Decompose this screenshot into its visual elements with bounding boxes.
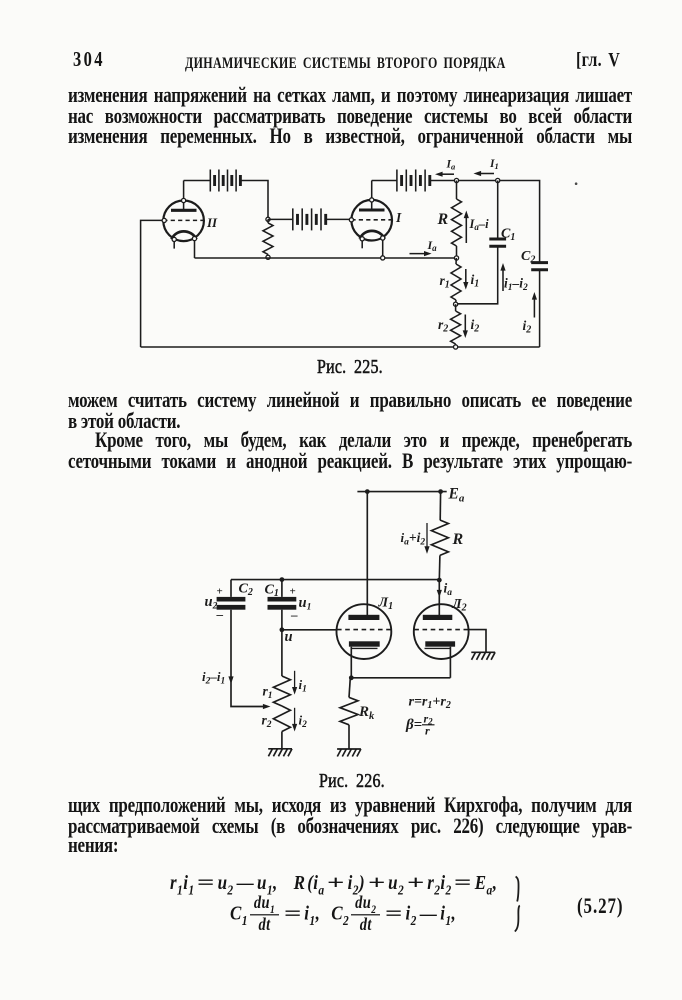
label ia (444, 581, 453, 599)
arrow i2 (fig226 downward) (292, 708, 297, 732)
svg-text:C1: C1 (501, 227, 515, 244)
wire: left outer branch (141, 220, 162, 347)
formula beta=r2/r (405, 712, 435, 738)
wire: grid L1 lead (282, 629, 337, 631)
svg-text:–: – (216, 607, 224, 622)
capacitor C2 (fig226) (217, 580, 246, 610)
speck (575, 182, 578, 185)
arrow i1 (downward) (463, 269, 468, 290)
svg-text:R: R (437, 211, 449, 228)
label r2 (fig226) (262, 713, 272, 731)
svg-text:r2: r2 (438, 317, 448, 335)
label i1 (fig226) (299, 677, 307, 695)
arrow i2-i1 (downward on branch) (228, 676, 233, 684)
triode tube II (162, 181, 204, 259)
arrow ia+i2 (downward) (424, 523, 429, 554)
capacitor C1 (456, 181, 507, 304)
ground (r2 fig226) (268, 749, 292, 757)
label i1 (471, 272, 480, 290)
svg-text:Ia–i: Ia–i (469, 217, 490, 232)
node: tube I cathode (381, 256, 385, 260)
wire: Ea supply rail (357, 491, 446, 493)
arrow Ia-i (upward) (464, 211, 469, 244)
svg-text:ia: ia (444, 581, 453, 599)
svg-text:r1: r1 (440, 273, 450, 291)
equation number (577, 894, 623, 920)
label r2 (438, 317, 448, 335)
svg-text:i1: i1 (299, 677, 307, 695)
label u (285, 629, 293, 645)
triode tube I (349, 181, 392, 258)
label C1 (fig226) (265, 583, 279, 600)
running head: chapter ref (576, 48, 620, 74)
svg-text:C1: C1 (265, 583, 279, 600)
ground (Rk) (337, 749, 361, 757)
running head: page number 304 (73, 47, 105, 73)
label Ea (448, 486, 465, 505)
label i2-i1 (202, 669, 225, 687)
svg-text:i1–i2: i1–i2 (504, 276, 528, 294)
figure 226 caption (319, 769, 385, 795)
svg-text:+: + (290, 586, 296, 598)
arrow i2 (downward) (463, 315, 468, 339)
resistor r2 (fig226) (273, 706, 290, 749)
label L2 (451, 597, 467, 614)
svg-text:r1: r1 (263, 684, 273, 702)
label I1 (top) (489, 158, 499, 171)
wire: L1 anode lead (366, 492, 368, 616)
label C2 (521, 249, 535, 266)
label R (437, 211, 449, 228)
arrow Ia (top, leftward) (435, 172, 454, 177)
node: cathode junction (349, 675, 354, 680)
battery (grid bias) (268, 208, 351, 230)
svg-text:r=r1+r2: r=r1+r2 (409, 695, 451, 712)
node u (280, 627, 285, 632)
svg-text:I: I (395, 210, 402, 225)
triode L2 (414, 604, 469, 678)
node: coupling resistor top (266, 217, 270, 221)
wire: anode distribution rail (231, 579, 439, 581)
svg-text:Ia: Ia (427, 238, 438, 253)
equation line 2 of (5.27) (230, 895, 456, 933)
svg-text:r: r (425, 724, 430, 738)
coupling resistor (263, 219, 273, 257)
arrow Ia (middle, rightward) (410, 251, 432, 256)
resistor r1 (fig226) (273, 676, 290, 706)
node: C1 top junction (280, 577, 285, 582)
label u1 with polarity (290, 586, 312, 623)
wire: i2-i1 branch (231, 610, 265, 707)
node: R bottom junction (437, 578, 442, 583)
label i2 (fig226) (299, 713, 308, 731)
label r1 (fig226) (263, 684, 273, 702)
arrow i1-i2 (upward) (500, 263, 505, 291)
svg-text:i2–i1: i2–i1 (202, 669, 225, 687)
label II (206, 215, 218, 230)
label I (tube I) (395, 210, 402, 225)
ground (grid L2) (471, 652, 495, 660)
node: r1 r2 junction (454, 302, 458, 306)
svg-text:i2: i2 (523, 318, 532, 336)
svg-text:ia+i2: ia+i2 (401, 530, 426, 548)
svg-text:β=: β= (405, 717, 422, 733)
label i1-i2 (504, 276, 528, 294)
paragraph 3 (68, 793, 632, 819)
triode L1 (337, 604, 392, 678)
svg-text:Rk: Rk (358, 704, 375, 722)
running head: chapter title (185, 50, 506, 76)
svg-text:u1: u1 (299, 595, 312, 613)
wire: cathode tie (351, 677, 450, 679)
svg-text:II: II (206, 215, 218, 230)
resistor R (452, 181, 462, 259)
node: rail right junction (438, 489, 443, 494)
svg-text:C2: C2 (239, 582, 253, 599)
formula r=r1+r2 (409, 695, 451, 712)
svg-text:+: + (217, 586, 223, 598)
node: bottom rail (454, 345, 458, 349)
svg-text:i2: i2 (471, 317, 480, 335)
arrow i1 (fig226 downward) (292, 671, 297, 695)
label i2 (right) (523, 318, 532, 336)
capacitor C1 (fig226) (268, 580, 297, 676)
svg-text:Ea: Ea (448, 486, 465, 505)
label R (452, 531, 464, 548)
svg-text:–: – (290, 607, 298, 622)
svg-text:r2: r2 (262, 713, 272, 731)
label C2 (fig226) (239, 582, 253, 599)
wire: grid L2 to ground (468, 630, 486, 653)
equation line 1 of (5.27) (170, 871, 497, 895)
resistor r1 (451, 258, 461, 304)
paragraph 2 (68, 388, 632, 414)
node: rail left junction (365, 489, 370, 494)
label Ia-i (469, 217, 490, 232)
label r1 (440, 273, 450, 291)
arrow i2 right (upward) (532, 292, 537, 318)
svg-text:R: R (452, 531, 464, 548)
figure 225 caption (317, 355, 383, 381)
paragraph 1 (68, 83, 632, 109)
label ia+i2 (401, 530, 426, 548)
label Rk (358, 704, 375, 722)
svg-text:u: u (285, 629, 293, 645)
label Ia (middle) (427, 238, 438, 253)
wire: bottom rail (141, 346, 540, 348)
arrow ia (downward) (437, 590, 442, 598)
label i2 (471, 317, 480, 335)
equation brace (5.27) (515, 877, 520, 932)
label Ia (top) (446, 159, 456, 172)
svg-text:i2: i2 (299, 713, 308, 731)
resistor R (431, 492, 448, 580)
label C1 (501, 227, 515, 244)
wire: L2 anode lead (438, 580, 440, 616)
node: R top (454, 178, 458, 182)
battery (anode supply II) (184, 170, 268, 220)
node: coupling resistor bottom (266, 255, 270, 259)
resistor r2 (451, 304, 461, 347)
label L1 (378, 596, 394, 613)
node: C1 top (496, 178, 500, 182)
wire: cathode rail (195, 257, 457, 259)
wire: top right rail (430, 181, 540, 263)
node: R bottom (454, 256, 458, 260)
arrow into r1r2 junction (rightward) (263, 704, 271, 709)
label u2 with polarity (205, 586, 224, 622)
capacitor C2 (531, 263, 548, 347)
battery (anode supply I) (372, 170, 430, 192)
svg-text:Л1: Л1 (378, 596, 394, 613)
svg-text:Ia: Ia (446, 159, 456, 172)
svg-text:i1: i1 (471, 272, 480, 290)
svg-text:C2: C2 (521, 249, 535, 266)
resistor Rk (340, 678, 358, 749)
svg-text:Л2: Л2 (451, 597, 467, 614)
arrow I1 (top, leftward) (474, 171, 495, 176)
svg-text:I1: I1 (489, 158, 499, 171)
